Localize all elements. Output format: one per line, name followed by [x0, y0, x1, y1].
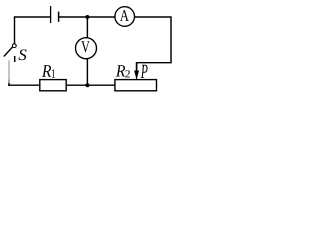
label S: [18, 49, 26, 60]
voltmeter V1: [76, 38, 97, 59]
wiper arrow of rheostat: [134, 62, 139, 80]
node: bottom junction dot: [85, 83, 89, 87]
label R2: [116, 65, 125, 76]
wire ammeter to top-right corner and down: [134, 17, 171, 63]
switch S lower contact stub: [14, 56, 16, 62]
wire left-lower vertical (faint in scan): [8, 60, 10, 79]
wire bottom: R1 to R2: [66, 84, 115, 86]
switch S pivot circle: [12, 44, 16, 48]
resistor R2 (rheostat body): [115, 80, 157, 91]
label P: [141, 65, 148, 78]
label R1: [42, 65, 51, 77]
ammeter A1: [115, 7, 135, 27]
resistor R1: [40, 80, 66, 91]
wire jog to wiper: [136, 62, 171, 64]
wire left-upper vertical to switch: [14, 16, 16, 43]
wire top-left horizontal: [15, 16, 51, 18]
wire battery to node: [59, 16, 115, 18]
wire voltmeter top lead: [86, 17, 88, 38]
wire bottom-left horizontal: [8, 84, 40, 86]
wire voltmeter bottom lead: [86, 58, 88, 85]
switch S blade: [4, 47, 13, 57]
node: top junction dot: [85, 15, 89, 19]
battery cell: short plate: [58, 12, 60, 22]
battery cell: long plate: [50, 6, 52, 23]
